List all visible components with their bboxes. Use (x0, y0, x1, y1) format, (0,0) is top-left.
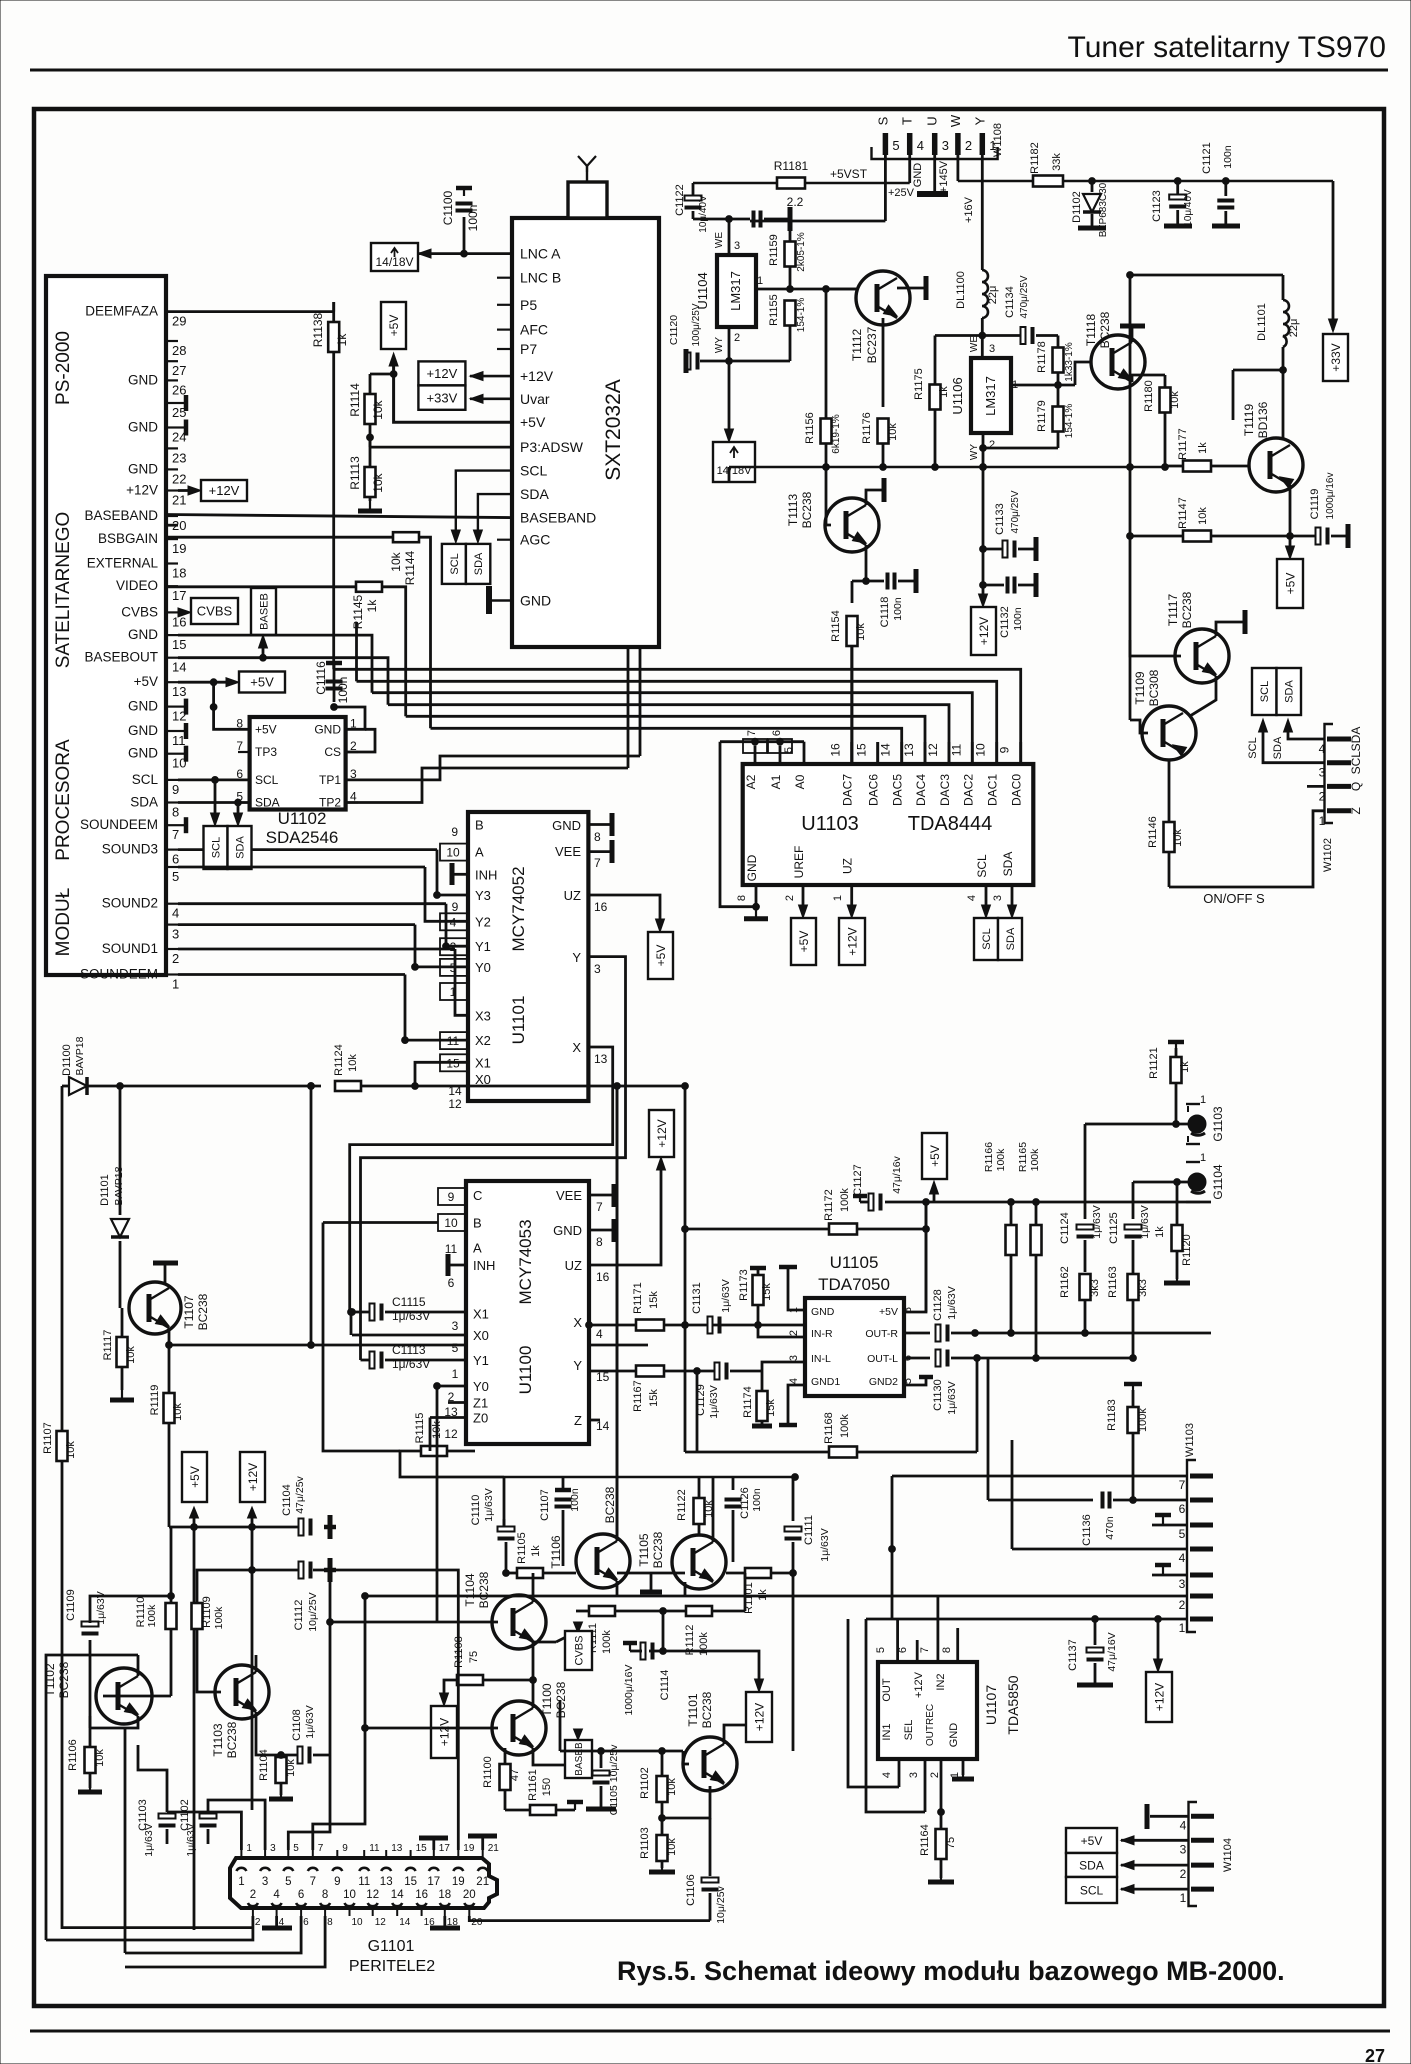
svg-text:Z: Z (1349, 807, 1363, 814)
svg-text:C1116: C1116 (314, 661, 328, 695)
svg-text:SOUNDEEM: SOUNDEEM (80, 967, 158, 982)
svg-text:3k3: 3k3 (1137, 1279, 1149, 1297)
G1101 pin18 ground (443, 1916, 446, 1928)
svg-text:2: 2 (929, 1772, 941, 1778)
W1103 pin 1 (1190, 1617, 1213, 1622)
svg-text:10k: 10k (371, 399, 385, 419)
svg-text:R1121: R1121 (1148, 1047, 1160, 1079)
svg-text:47: 47 (509, 1769, 521, 1781)
svg-text:4: 4 (596, 1327, 603, 1341)
svg-text:10μ/40V: 10μ/40V (698, 195, 709, 233)
svg-text:SCL: SCL (210, 837, 222, 858)
U1103 UZ pin1 to +12V (850, 885, 853, 914)
svg-text:1k33-1%: 1k33-1% (1064, 342, 1075, 382)
svg-text:1μ/63V: 1μ/63V (819, 1528, 831, 1562)
T1101 base wire (683, 1763, 689, 1766)
svg-text:1μ/63V: 1μ/63V (946, 1286, 958, 1320)
resistor R1175 1k (930, 385, 941, 410)
PS-2000 pin 18 (166, 562, 178, 564)
wire T1104 base up (436, 1386, 439, 1622)
svg-text:SDA: SDA (1005, 927, 1017, 950)
capacitor C1128 1u/63V (904, 1332, 930, 1335)
U1106 pin1 wire (1011, 384, 1075, 387)
svg-text:R1107: R1107 (42, 1422, 54, 1454)
svg-text:22: 22 (172, 471, 186, 486)
G1101 pin 17 (429, 1868, 439, 1871)
svg-text:C1130: C1130 (932, 1379, 944, 1411)
svg-text:1μ/63V: 1μ/63V (143, 1823, 155, 1857)
capacitor C1109 1u/63V (89, 1640, 92, 1716)
svg-text:C1115: C1115 (392, 1295, 426, 1309)
IC U1100 MCY74053 (466, 1181, 589, 1444)
G1101 pin 16 (417, 1903, 427, 1906)
+5VST rail (693, 182, 910, 184)
svg-text:+12V: +12V (752, 1703, 766, 1731)
PS-2000 pin 2 (166, 948, 178, 950)
svg-text:G1103: G1103 (1211, 1106, 1225, 1141)
capacitor C1120 100u/25V (700, 360, 729, 363)
bus wire DAC3 (388, 705, 949, 764)
T1100 base (365, 1727, 498, 1730)
svg-text:1k: 1k (1197, 442, 1209, 454)
svg-text:B: B (475, 818, 484, 833)
svg-text:R1115: R1115 (414, 1413, 426, 1444)
svg-text:+5VST: +5VST (830, 167, 868, 181)
wire WY down through C1133 (982, 467, 985, 603)
svg-text:T1107: T1107 (182, 1295, 196, 1328)
svg-text:R1183: R1183 (1106, 1399, 1118, 1431)
wire G1101 pin3 up (208, 1800, 265, 1850)
svg-text:C1126: C1126 (739, 1487, 751, 1519)
svg-text:X: X (573, 1315, 582, 1330)
svg-text:7: 7 (594, 856, 601, 870)
svg-text:7: 7 (596, 1200, 603, 1214)
svg-text:3: 3 (908, 1772, 920, 1778)
svg-text:BC238: BC238 (1180, 591, 1194, 628)
inductor DL1101 22u vertical (1282, 275, 1285, 300)
svg-text:BASEBAND: BASEBAND (84, 508, 158, 523)
svg-text:75: 75 (468, 1651, 480, 1663)
phono jack G1103 (1100, 1123, 1188, 1126)
resistor R1146 10k (1164, 822, 1175, 852)
svg-text:10μ/25V: 10μ/25V (307, 1592, 319, 1631)
resistor R1122 10k (694, 1498, 705, 1524)
svg-text:R1120: R1120 (1181, 1234, 1193, 1266)
svg-text:U: U (925, 116, 940, 125)
svg-text:14: 14 (391, 1889, 404, 1901)
capacitor C1133 470u/25V (983, 548, 1004, 551)
svg-text:DAC5: DAC5 (891, 774, 905, 806)
svg-text:R1167: R1167 (632, 1380, 644, 1412)
svg-text:9: 9 (452, 900, 459, 914)
U1100 B select wire (323, 1221, 438, 1224)
svg-text:1μ/63V: 1μ/63V (1091, 1205, 1103, 1239)
U1103 GND pin8 (755, 885, 758, 907)
svg-text:1k: 1k (938, 386, 950, 398)
svg-text:DAC3: DAC3 (938, 774, 952, 806)
svg-text:R1138: R1138 (311, 312, 325, 347)
header rule (30, 69, 1388, 72)
svg-text:C1119: C1119 (1309, 489, 1321, 520)
wire R1115 down (400, 1451, 504, 1477)
wire G1101 pin8 run (125, 1916, 325, 1967)
G1101 pin 2 (248, 1903, 258, 1906)
svg-text:AGC: AGC (520, 532, 550, 548)
svg-text:1μ/63V: 1μ/63V (708, 1385, 720, 1419)
gnd between T1106 T1105 (650, 1573, 653, 1592)
T1119 collector frame wire (1233, 369, 1283, 372)
svg-text:WY: WY (714, 337, 725, 353)
svg-text:1μ/63V: 1μ/63V (720, 1279, 732, 1313)
T1104 collector up (532, 1573, 535, 1602)
PS-2000 pin 17 (166, 585, 178, 587)
capacitor C1134 470u/25V (982, 334, 1022, 337)
wire T1107 emitter to U1100 area (169, 1344, 648, 1347)
PS-2000 pin 8 (166, 801, 178, 803)
G1101 pin 3 (260, 1868, 270, 1871)
svg-text:1μ/63V: 1μ/63V (185, 1823, 197, 1857)
svg-text:R1156: R1156 (804, 412, 816, 444)
antenna stub on SXT2032A (568, 182, 607, 218)
svg-text:17: 17 (439, 1843, 451, 1854)
svg-text:Y0: Y0 (473, 1379, 489, 1394)
svg-text:DAC2: DAC2 (961, 774, 975, 806)
transistor T1105 BC238 (672, 1535, 726, 1589)
PS-2000 pin 24 (166, 426, 178, 428)
svg-text:Y2: Y2 (475, 914, 491, 929)
capacitor C1112 10u/25V (252, 1569, 300, 1572)
bus wire DAC1 (357, 681, 997, 764)
resistor R1183 100k (1132, 1384, 1134, 1390)
junction rail y1751 (560, 1750, 683, 1753)
svg-text:R1155: R1155 (768, 294, 780, 326)
svg-text:T1103: T1103 (211, 1723, 225, 1756)
wire to +5V box (1289, 536, 1292, 555)
svg-text:R1161: R1161 (527, 1769, 539, 1801)
svg-text:C1111: C1111 (803, 1515, 815, 1545)
svg-text:1: 1 (238, 1876, 244, 1888)
capacitor C1116 (333, 663, 336, 702)
svg-text:IN-R: IN-R (811, 1328, 833, 1340)
svg-text:R1179: R1179 (1036, 400, 1048, 432)
W1108 pin 1 Y (980, 133, 986, 155)
U1107 top stubs (896, 1619, 899, 1662)
svg-text:Y0: Y0 (475, 960, 491, 975)
svg-text:R1105: R1105 (516, 1532, 528, 1564)
W1108 pin 2 W (955, 133, 961, 155)
svg-text:+12V: +12V (845, 927, 859, 955)
svg-text:+12V: +12V (520, 368, 554, 384)
resistor R1120 1k (1172, 1225, 1183, 1251)
resistor R1164 75 (938, 1809, 945, 1816)
svg-text:10k: 10k (855, 623, 867, 641)
CVBS box at pin 16 (178, 608, 191, 617)
resistor R1180 10k (1160, 388, 1171, 413)
svg-text:7: 7 (310, 1876, 316, 1888)
capacitor C1113 1u/63V (361, 1359, 372, 1362)
svg-text:+5V: +5V (1283, 573, 1297, 595)
svg-text:+5V: +5V (928, 1145, 942, 1167)
svg-text:10: 10 (446, 846, 460, 860)
svg-text:100k: 100k (1029, 1148, 1041, 1172)
wire +5V pin to +5V box (394, 357, 512, 422)
+15V distribution vertical (1129, 275, 1132, 640)
T1101 collector to +12V rail (724, 1725, 745, 1744)
IC U1107 TDA5850 (878, 1662, 977, 1759)
svg-text:15: 15 (416, 1843, 428, 1854)
svg-text:CVBS: CVBS (197, 604, 233, 619)
wire R1147 connections (1130, 535, 1183, 538)
U1100 X0 Y0 wires left (352, 1334, 466, 1337)
svg-text:+5V: +5V (879, 1306, 898, 1318)
svg-text:IN-L: IN-L (811, 1353, 831, 1365)
svg-text:R1181: R1181 (774, 159, 809, 173)
wire T1100 emitter to BASEB (533, 1748, 571, 1765)
svg-text:P3:ADSW: P3:ADSW (520, 439, 584, 455)
svg-text:G1101: G1101 (368, 1938, 415, 1955)
svg-text:C1108: C1108 (291, 1709, 303, 1741)
resistor R1171 15k (636, 1320, 664, 1331)
U1105 +5V pin8 wire up (904, 1202, 926, 1312)
PS-2000 pin 21 (166, 489, 178, 491)
svg-text:23: 23 (172, 450, 186, 465)
wire SDA down to SDA box (SXT) (478, 494, 512, 539)
W1108 pin 4 T (907, 133, 913, 155)
resistor R1113 10k (365, 467, 376, 497)
W1104 pin 1 (1191, 1887, 1214, 1892)
svg-text:SATELITARNEGO: SATELITARNEGO (53, 512, 74, 669)
main +145V rail right (958, 180, 1333, 182)
wire G1101 pin20 long right (469, 1916, 710, 1921)
svg-text:DEEMFAZA: DEEMFAZA (85, 304, 158, 319)
svg-text:15k: 15k (765, 1399, 777, 1417)
T1109 collector to T1117 emitter (1190, 676, 1216, 716)
svg-text:1μ/63V: 1μ/63V (946, 1381, 958, 1415)
svg-text:75: 75 (945, 1837, 957, 1849)
capacitor C1126 100n (732, 1477, 735, 1490)
PS-2000 pin 9 (166, 779, 178, 781)
resistor R1182 33k (1033, 176, 1063, 187)
svg-text:1k: 1k (530, 1545, 542, 1557)
svg-text:1000μ/16v: 1000μ/16v (1325, 473, 1336, 520)
svg-text:12: 12 (926, 743, 940, 757)
svg-text:9: 9 (342, 1843, 348, 1854)
svg-text:C1121: C1121 (1201, 142, 1213, 174)
G1101 pin 4 (272, 1903, 282, 1906)
PS-2000 pin 13 (166, 681, 178, 683)
svg-text:1μ/63V: 1μ/63V (1139, 1205, 1151, 1239)
wire T1102 collector top loop (90, 1596, 171, 1612)
PS-2000 pin 5 (166, 866, 178, 868)
G1101 pin 19 (453, 1868, 463, 1871)
svg-text:470n: 470n (1104, 1516, 1116, 1540)
svg-text:BC238: BC238 (700, 1691, 714, 1728)
svg-text:LM317: LM317 (728, 271, 743, 311)
svg-text:33k: 33k (1051, 153, 1063, 171)
W1108 pin 3 U (932, 133, 938, 155)
resistor R1179 154-1% (1053, 407, 1064, 432)
+12V box (near T1101) (745, 1651, 759, 1688)
svg-text:C1118: C1118 (879, 597, 891, 628)
svg-text:10k: 10k (887, 423, 899, 441)
svg-text:GND: GND (520, 593, 551, 609)
wire BSBGAIN pin19 stub (166, 524, 178, 527)
W1103 pin5 gnd tick (1152, 1524, 1187, 1527)
svg-text:SDA: SDA (1001, 852, 1015, 877)
svg-text:12: 12 (448, 1097, 462, 1111)
U1103 UREF pin2 to +5V (802, 885, 805, 914)
wire R1112 right to R1101 (744, 1573, 747, 1611)
svg-text:R1168: R1168 (823, 1412, 835, 1444)
U1105 GND pin1 wire to tick (788, 1267, 805, 1310)
svg-text:18: 18 (438, 1889, 451, 1901)
svg-text:TP1: TP1 (319, 773, 341, 787)
svg-text:+12V: +12V (427, 366, 458, 381)
svg-text:Y1: Y1 (475, 939, 491, 954)
svg-text:6: 6 (448, 1276, 455, 1290)
svg-text:10k: 10k (65, 1441, 77, 1459)
svg-text:10: 10 (974, 743, 988, 757)
resistor R1147 10k (1183, 531, 1211, 542)
svg-text:T1112: T1112 (850, 329, 864, 362)
svg-text:1μ/63V: 1μ/63V (392, 1309, 430, 1323)
T1103 collector (255, 1655, 258, 1672)
PS-2000 pin 14 (166, 657, 178, 659)
resistor R1119 10k (164, 1393, 175, 1423)
wire R1119 bottom (169, 1526, 194, 1529)
svg-text:D1101: D1101 (99, 1174, 111, 1206)
IC U1106 LM317 (971, 358, 1011, 433)
svg-text:3: 3 (172, 927, 179, 942)
T1102 base wire (103, 1695, 171, 1698)
svg-text:3: 3 (594, 962, 601, 976)
svg-text:100k: 100k (1137, 1408, 1149, 1432)
wires sound pins to U1101 (178, 848, 203, 851)
resistor R1168 100k (829, 1447, 857, 1458)
svg-text:1k: 1k (335, 333, 349, 347)
G1101 pin 13 (381, 1868, 391, 1871)
bus left verticals (355, 622, 358, 681)
W1108 U pin GND (933, 155, 936, 194)
transistor T1112 BC237 (856, 271, 910, 325)
T1119 emitter down (1289, 485, 1292, 536)
transistor T1118 BC238 (1091, 335, 1145, 389)
svg-text:R1154: R1154 (830, 610, 842, 642)
svg-text:Q: Q (1349, 782, 1363, 791)
resistor R1144 10k horizontal (393, 532, 419, 542)
W1103 pin 5 (1190, 1523, 1213, 1528)
svg-text:BASEBOUT: BASEBOUT (84, 650, 158, 665)
wire SCL SDA long runs to right (346, 756, 641, 780)
W1104 pin 3 (1191, 1838, 1214, 1843)
connector W1104 bracket (1189, 1802, 1198, 1906)
DAC6 stub (876, 742, 879, 764)
svg-text:2.2: 2.2 (787, 195, 804, 209)
svg-text:4: 4 (1319, 742, 1326, 756)
svg-text:16: 16 (596, 1270, 610, 1284)
svg-text:11: 11 (949, 743, 963, 756)
svg-text:7: 7 (1179, 1478, 1186, 1492)
svg-text:SDA: SDA (1272, 736, 1284, 759)
wire P3:ADSW (370, 446, 512, 449)
resistor R1178 1k33-1% (1053, 348, 1064, 373)
svg-text:11: 11 (172, 733, 186, 748)
U1107 pin4 wire left (848, 1619, 899, 1787)
svg-text:4: 4 (881, 1772, 893, 1778)
+5V box left (182, 1452, 207, 1502)
T1105 collector wire (712, 1477, 715, 1542)
svg-text:PROCESORA: PROCESORA (53, 739, 74, 861)
G1101 pin 20 (464, 1903, 474, 1906)
svg-text:7: 7 (746, 730, 758, 736)
svg-text:10: 10 (444, 1216, 458, 1230)
svg-text:C1110: C1110 (470, 1495, 482, 1526)
svg-text:+5V: +5V (255, 722, 277, 736)
vertical from OUT-R to pin7 rail (891, 1476, 894, 1619)
svg-text:+5V: +5V (250, 675, 274, 690)
G1101 pin17 tbar (432, 1838, 435, 1850)
svg-text:1: 1 (452, 1367, 459, 1381)
svg-text:GND: GND (552, 818, 581, 833)
capacitor C1137 47u/16V (1094, 1619, 1097, 1645)
W1102 pin2 stub (1307, 785, 1325, 788)
svg-text:+33V: +33V (1329, 343, 1343, 371)
SCL SDA boxes below U1102 (211, 813, 220, 826)
T1101 emitter wire down with C1106 (662, 1786, 710, 1818)
svg-text:GND: GND (128, 627, 158, 642)
svg-text:C1120: C1120 (668, 315, 680, 345)
svg-text:+16V: +16V (963, 196, 975, 223)
ground below R1113 (369, 501, 371, 511)
svg-text:C1100: C1100 (441, 190, 455, 225)
svg-text:1: 1 (172, 977, 179, 992)
svg-text:27: 27 (1365, 2046, 1385, 2064)
svg-text:SDA: SDA (255, 796, 280, 810)
svg-text:5: 5 (902, 1378, 914, 1384)
svg-text:DL1100: DL1100 (955, 271, 967, 309)
IC U-SXT2032A (512, 218, 659, 647)
wire X out to R1171 (U1100) (586, 1322, 593, 1329)
capacitor C1107 100n (562, 1477, 565, 1490)
svg-text:100k: 100k (601, 1630, 613, 1654)
T1117 collector tick (1216, 622, 1245, 636)
svg-text:5: 5 (172, 869, 179, 884)
svg-text:GND: GND (128, 461, 158, 476)
resistor R1156 6k19-1% (821, 419, 832, 444)
left edge verticals R1107 etc (46, 1655, 138, 1940)
wire G1101 pin6 run (125, 1916, 301, 1953)
svg-text:R1147: R1147 (1177, 497, 1189, 529)
svg-text:22μ: 22μ (1288, 319, 1300, 338)
wire R1154 to DAC7 (850, 646, 853, 764)
svg-text:10k: 10k (172, 1403, 184, 1421)
svg-text:1μ/63V: 1μ/63V (483, 1488, 495, 1522)
svg-text:100k: 100k (839, 1188, 851, 1212)
+5V rail right (926, 1201, 1211, 1204)
resistor R1111 100k (589, 1606, 615, 1616)
resistor R1162 3k3 (1080, 1274, 1091, 1300)
svg-text:13: 13 (380, 1876, 393, 1888)
svg-text:R1144: R1144 (403, 550, 417, 585)
svg-text:8: 8 (941, 1647, 953, 1653)
svg-text:100k: 100k (146, 1604, 158, 1628)
svg-text:R1178: R1178 (1036, 341, 1048, 373)
svg-text:SXT2032A: SXT2032A (602, 379, 625, 481)
svg-text:TDA7050: TDA7050 (818, 1275, 890, 1294)
wire SDA bus pin8 (178, 801, 250, 804)
transistor T1107 BC238 (129, 1282, 181, 1334)
svg-text:U1105: U1105 (830, 1253, 879, 1272)
